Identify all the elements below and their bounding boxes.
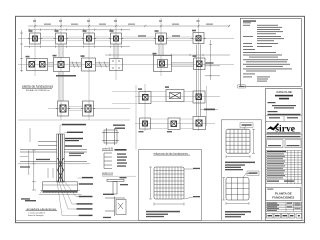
svg-text:refuerzos de las fundaciones: refuerzos de las fundaciones <box>154 151 189 155</box>
footing Z20 <box>193 117 206 130</box>
horizontal axis row 2 <box>18 64 234 66</box>
section labels left column <box>20 159 50 200</box>
corte C-C detail <box>102 171 136 176</box>
svg-text:FUNDACIONES: FUNDACIONES <box>272 195 294 199</box>
small label box top of mesh column <box>238 85 245 88</box>
mesh1 dims <box>226 129 255 158</box>
row3 tie beam <box>69 106 83 108</box>
beam lines along row 1 <box>41 37 194 41</box>
vertical axis line B <box>60 18 62 120</box>
project header CASA CLUB <box>276 90 291 94</box>
slab lines left <box>20 149 57 151</box>
svg-text:armadura elevaciones: armadura elevaciones <box>27 207 57 211</box>
dim line under row1 <box>24 46 130 48</box>
relleno label right mid <box>69 153 84 156</box>
label V.F. near mid right <box>200 109 218 111</box>
sheet border <box>16 16 305 222</box>
info table <box>266 202 302 211</box>
tie beam segment 4 <box>172 62 194 64</box>
right vertical dim line <box>205 40 220 80</box>
corner footing plan detail <box>102 128 119 145</box>
top dimension line 2 <box>28 29 130 31</box>
mid beam lines <box>112 92 193 129</box>
mesh2 leader + label <box>243 174 250 178</box>
footing Z13 <box>56 101 70 116</box>
plan title: planta de fundaciones <box>22 84 54 92</box>
vertical axis line H <box>206 86 208 126</box>
long ground line <box>18 163 90 165</box>
title block column <box>266 89 303 221</box>
footing Z15 <box>138 88 151 103</box>
drawing title box PLANTA DE FUNDACIONES <box>266 188 301 201</box>
vertical axis line A <box>34 18 36 76</box>
mesh detail 1 <box>226 129 250 153</box>
top dimension line 1 <box>28 25 230 27</box>
footing Z14 <box>81 101 95 116</box>
vertical axis line F <box>160 18 162 76</box>
dim ticks under row1 <box>30 45 122 47</box>
vertical axis line G <box>198 18 200 131</box>
floor line lower <box>20 160 57 162</box>
strip footing column G long <box>195 45 197 117</box>
svg-text:corte B-B: corte B-B <box>102 147 113 151</box>
beam span labels row1 <box>138 35 180 36</box>
horizontal axis row 1 <box>18 38 234 40</box>
footing Z17 <box>193 91 205 103</box>
footing Z16 wide <box>165 86 184 101</box>
dim ticks second line <box>30 29 122 31</box>
footing Z12 <box>193 55 214 69</box>
dim ticks mid line <box>110 54 203 56</box>
divider line below plan <box>135 85 137 150</box>
footing Z6 r1c6 <box>191 30 205 44</box>
inner bottom border line <box>16 219 305 221</box>
signature boxes <box>267 140 302 148</box>
mesh2 dims <box>222 178 249 205</box>
slab lines right <box>65 149 88 151</box>
mesh details enclosing box <box>221 120 261 221</box>
footing Z2 r1c2 <box>54 30 68 44</box>
vertical axis line C <box>88 18 90 120</box>
refuerzos box <box>138 150 201 221</box>
anchor detail bottom <box>103 194 114 195</box>
strip footing below Z4 <box>113 44 115 59</box>
dim text smudges top <box>44 24 213 25</box>
column rebar cross zone <box>58 158 64 170</box>
mesh detail 2 <box>226 178 249 201</box>
footing combined Z7 <box>26 56 48 71</box>
ground hatch under base <box>39 191 82 195</box>
horizontal axis row mid <box>135 95 220 97</box>
small note above section title <box>25 200 36 201</box>
mesh2 caption <box>225 211 251 217</box>
dim ticks mid <box>20 128 30 157</box>
section detail group (left bottom) <box>18 134 90 191</box>
section labels right column <box>62 124 93 216</box>
footing Z8 <box>53 55 70 72</box>
beam lines left of column <box>38 141 57 143</box>
label L= under Z8 <box>56 75 76 77</box>
footing Z3 r1c3 <box>82 30 96 44</box>
footing Z18 <box>139 118 151 132</box>
horizontal axis row 3 <box>48 108 130 110</box>
footing Z1 r1c1 <box>28 30 42 44</box>
footing Z10 plain <box>110 59 123 71</box>
refuerzos dims <box>149 167 193 206</box>
section title <box>26 207 58 217</box>
dim line mid <box>105 54 230 56</box>
strip footing below Z2 <box>58 44 60 58</box>
mesh1 caption <box>225 162 255 171</box>
section dimension verticals <box>29 150 53 190</box>
revision table <box>266 150 302 184</box>
refuerzos caption <box>146 211 180 217</box>
column shaft <box>57 134 64 182</box>
section leaders right <box>57 125 82 216</box>
sirve logo <box>267 123 301 135</box>
corte B-B detail <box>102 147 127 151</box>
footing Z4 r1c4 <box>109 30 123 44</box>
footing Z11 large <box>153 53 172 72</box>
left vertical dim line <box>20 30 23 72</box>
tie beam segment 1 <box>48 62 54 64</box>
vertical axis line E <box>144 84 146 131</box>
horizontal line bottom of plan <box>18 119 130 121</box>
footing base <box>43 182 78 191</box>
footing Z5 r1c5 <box>154 30 168 44</box>
tie beam segment 3 <box>96 62 110 64</box>
strip footing below Z5 <box>158 44 160 56</box>
svg-text:planta de fundaciones: planta de fundaciones <box>22 84 54 88</box>
dim ticks top line <box>34 25 230 27</box>
svg-text:corte C-C: corte C-C <box>102 171 113 175</box>
vertical axis line D <box>115 18 117 80</box>
axis head marks <box>33 20 200 21</box>
svg-text:fierros de hormigon: fierros de hormigon <box>28 215 43 217</box>
refuerzos mesh <box>154 167 184 199</box>
footing Z9 <box>81 55 96 71</box>
footing Z19 <box>167 118 180 132</box>
tie beam segment 2 <box>70 62 82 64</box>
svg-text:CASA CLUB: CASA CLUB <box>276 90 291 94</box>
mesh1 leader + label <box>244 125 252 129</box>
bottom small boxes row <box>267 213 302 218</box>
horizontal axis row 4 <box>135 123 215 125</box>
notes panel <box>240 18 301 86</box>
svg-text:ESCALA 1:50 COTAS EN cm.: ESCALA 1:50 COTAS EN cm. <box>26 89 50 92</box>
